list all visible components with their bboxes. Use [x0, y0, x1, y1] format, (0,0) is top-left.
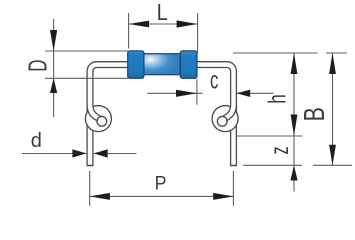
d dimension line left part	[22, 153, 86, 155]
svg-text:L: L	[157, 0, 168, 25]
left lead loop entry diagonal	[90, 105, 102, 120]
B top arrow (points up)	[329, 53, 336, 74]
P right extension line	[232, 171, 234, 206]
left lead	[90, 65, 129, 167]
c dimension line left part	[147, 92, 202, 94]
P left arrow	[90, 193, 110, 200]
h top arrow (points up)	[291, 53, 298, 74]
c left extension line	[196, 79, 198, 105]
svg-text:c: c	[210, 66, 219, 94]
right lead loop hole	[217, 117, 227, 127]
resistor left cap	[128, 51, 144, 79]
svg-text:B: B	[299, 107, 331, 121]
bottom extension line right segment (B bottom)	[313, 164, 352, 166]
P left extension line	[89, 171, 91, 206]
c right arrow (points left)	[237, 90, 251, 97]
svg-text:D: D	[23, 60, 53, 72]
right lead loop entry diagonal	[222, 105, 233, 120]
B dimension line	[332, 53, 334, 165]
svg-text:P: P	[155, 172, 167, 194]
right lead pigtail loop	[211, 105, 238, 132]
resistor body middle cylinder	[144, 54, 180, 75]
L right extension line	[197, 13, 199, 53]
D dimension line	[53, 19, 55, 117]
P dimension line	[90, 195, 234, 197]
svg-text:d: d	[31, 130, 42, 152]
L left arrow	[129, 21, 150, 28]
L right arrow	[177, 20, 198, 27]
h bottom arrow (points down)	[291, 115, 298, 137]
L dimension line	[129, 23, 198, 25]
D bottom extension line	[45, 77, 128, 79]
D bottom arrow (points up)	[50, 78, 57, 93]
D top arrow (points down)	[50, 30, 57, 51]
z bottom arrow (points up from below)	[290, 165, 297, 180]
L left extension line	[128, 13, 130, 49]
resistor right cap	[180, 51, 197, 79]
d left arrow (points right)	[72, 149, 86, 157]
svg-text:z: z	[267, 146, 294, 154]
c left arrow (points right)	[176, 90, 197, 97]
arrowheads	[50, 20, 336, 200]
right top extension line (h/B) part 1	[233, 52, 318, 54]
P right arrow	[213, 193, 233, 200]
D top extension line	[45, 50, 128, 52]
left lead loop hole	[97, 117, 107, 127]
c dimension line right part	[237, 92, 274, 94]
middle extension line (h bottom / z top)	[236, 135, 302, 137]
right top extension line (h/B) part 2	[326, 52, 347, 54]
svg-text:h: h	[263, 94, 291, 104]
bottom extension line left segment (z bottom)	[243, 164, 302, 166]
left lead pigtail loop	[85, 105, 112, 132]
right lead	[196, 65, 234, 167]
d dimension line right part	[94, 153, 137, 155]
dimension lines	[22, 13, 352, 206]
h z dimension line	[293, 53, 295, 192]
B bottom arrow (points down)	[329, 145, 336, 166]
d right arrow (points left)	[94, 149, 108, 157]
